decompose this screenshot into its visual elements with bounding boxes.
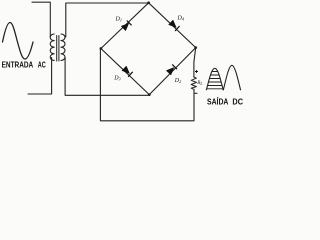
wire bridge left vertex to bottom rail [100, 49, 194, 121]
minus sign at load [195, 92, 198, 94]
AC source sine wave [3, 23, 34, 60]
junction node top [147, 1, 150, 4]
wire secondary bottom (to bridge bottom vertex) [65, 58, 149, 96]
svg-text:D3: D3 [113, 75, 120, 81]
bridge arm top-right [149, 3, 196, 48]
svg-text:D4: D4 [177, 16, 184, 22]
wire secondary top (to bridge top vertex) [66, 3, 149, 37]
wire primary bottom [28, 58, 52, 95]
transformer primary winding [50, 34, 54, 60]
diode D1 (left vertex to top vertex) [121, 21, 131, 31]
transformer secondary winding [61, 34, 65, 60]
diode D3 (left vertex to bottom vertex) [122, 66, 133, 77]
junction node bottom [148, 93, 151, 96]
resistor RL zigzag [191, 77, 196, 89]
transformer core [57, 36, 59, 62]
diode D2 (bottom vertex to right vertex) [166, 64, 177, 75]
DC output waveform: hatched hump [205, 68, 225, 90]
svg-text:ENTRADA: ENTRADA [2, 61, 34, 70]
svg-text:SAÍDA: SAÍDA [207, 96, 228, 106]
wire bridge right vertex to load [194, 48, 196, 77]
junction node right [194, 46, 197, 49]
svg-text:AC: AC [38, 61, 46, 70]
svg-text:D1: D1 [115, 17, 122, 23]
bridge arm bottom-right [149, 48, 195, 95]
svg-text:RL: RL [196, 80, 202, 86]
plus sign at load [195, 70, 198, 73]
svg-text:D2: D2 [174, 78, 181, 84]
DC output waveform: open hump [223, 65, 240, 90]
diode D4 (top vertex to right vertex) [169, 20, 180, 31]
bridge arm bottom-left [101, 49, 149, 95]
bridge arm top-left [101, 3, 149, 49]
svg-text:DC: DC [232, 96, 243, 106]
wire top-left (to primary top) [32, 2, 50, 37]
junction node left [100, 47, 103, 50]
